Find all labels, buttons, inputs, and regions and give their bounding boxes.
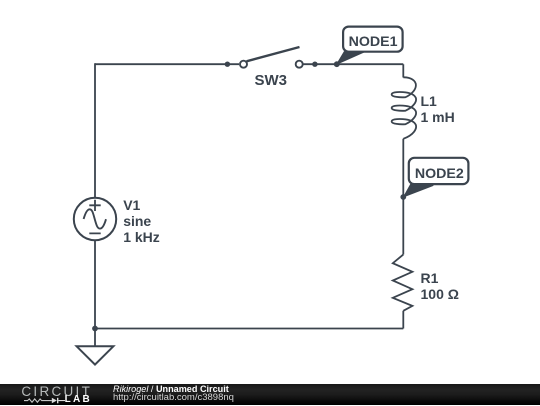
svg-text:NODE2: NODE2 bbox=[415, 166, 464, 182]
svg-text:NODE1: NODE1 bbox=[349, 34, 398, 50]
